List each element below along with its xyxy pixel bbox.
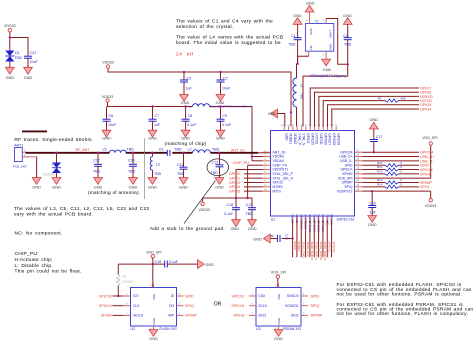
svg-text:SPICLK: SPICLK [99, 304, 113, 308]
pin top XTAL_N [301, 127, 303, 131]
pin 7 /HOLD [124, 314, 131, 316]
ground (U3) [153, 326, 155, 330]
capacitor C8 0.1uF [185, 107, 187, 120]
svg-text:XOUT: XOUT [329, 30, 333, 38]
wire VDDA3 stub [252, 156, 263, 158]
junction (L3 tap) [151, 152, 153, 154]
pin 20 SPIWP [355, 182, 363, 184]
pin bottom SDIO_CLK [305, 216, 307, 220]
svg-text:GPIO3: GPIO3 [306, 133, 310, 143]
svg-text:D2: D2 [51, 163, 55, 167]
pin 8 VDD stub (U3) [278, 284, 280, 288]
junction (C22 tap) [97, 152, 99, 154]
ground (U3) [278, 326, 280, 330]
junction (R8 to CS) [117, 295, 119, 297]
pin top GPIO25 [309, 127, 311, 131]
svg-text:C6: C6 [109, 114, 114, 118]
svg-text:GND: GND [129, 185, 138, 190]
ground (C4) [343, 18, 352, 25]
wire VDD33 rail2 [108, 102, 193, 106]
junction (XOUT) [347, 63, 349, 65]
ground (C2) [216, 95, 225, 102]
wire GPIO5 [244, 190, 263, 192]
svg-text:VDDA1: VDDA1 [289, 133, 293, 144]
ground (crystal top) [305, 5, 314, 12]
svg-text:VDDPST2: VDDPST2 [337, 189, 353, 193]
svg-text:TBD: TBD [344, 42, 352, 46]
pin 2 stub to ground [22, 156, 36, 158]
pin bottom SDIO_DATA1 [313, 216, 315, 220]
pin top U0TXD [314, 127, 316, 131]
svg-text:1uF: 1uF [154, 123, 161, 127]
svg-text:XTAL_N: XTAL_N [302, 133, 306, 146]
svg-text:C18: C18 [155, 260, 162, 264]
pin bottom SDIO_DATA3 [322, 216, 324, 220]
svg-text:VDD33: VDD33 [102, 60, 114, 64]
svg-text:10uF: 10uF [30, 60, 39, 64]
svg-text:not be used for other funtion: not be used for other funtions. FLASH is… [337, 311, 469, 317]
TVS diode D1 ESD [5, 51, 14, 57]
svg-text:TBD: TBD [127, 147, 135, 151]
pin 27 GPIO24 [355, 151, 363, 153]
svg-text:VDDA2: VDDA2 [293, 133, 297, 144]
junction (C17 tap) [373, 151, 375, 153]
svg-text:C4: C4 [343, 34, 348, 38]
svg-text:VDD33: VDD33 [102, 95, 114, 99]
svg-text:GND: GND [181, 135, 190, 140]
pin top GPIO29 [335, 127, 337, 131]
pin 5 VDDPST1 [263, 169, 271, 171]
pin 1 stub (ANT) [22, 151, 26, 153]
svg-text:0.1uF: 0.1uF [169, 260, 179, 264]
svg-text:TBD: TBD [212, 147, 220, 151]
wire SPIWP [363, 182, 386, 184]
svg-text:vary with the actual PCB board: vary with the actual PCB board. [14, 211, 93, 217]
wire SDIO_CLK down [305, 220, 307, 257]
pin 9 MTMS [263, 186, 271, 188]
ground (crystal bottom) [322, 59, 331, 66]
svg-text:U0TXD: U0TXD [315, 133, 319, 144]
svg-text:CHIP_PU: CHIP_PU [233, 161, 250, 165]
svg-text:GND: GND [343, 13, 352, 18]
svg-text:SDIO_CMD: SDIO_CMD [301, 242, 305, 259]
pin 10 MTDI [263, 190, 271, 192]
svg-text:RF_ANT: RF_ANT [76, 148, 91, 152]
svg-text:ESP32-C61: ESP32-C61 [337, 218, 355, 222]
svg-text:C3: C3 [187, 76, 192, 80]
svg-text:TBD: TBD [154, 172, 162, 176]
capacitor C7 1uF [152, 107, 154, 120]
svg-text:C9: C9 [223, 114, 228, 118]
svg-text:SO/SIO1: SO/SIO1 [285, 304, 299, 308]
capacitor C11 TBD [183, 153, 185, 167]
svg-text:TBD: TBD [177, 172, 185, 176]
ground (C22) [94, 178, 103, 185]
junction (XIN) [296, 63, 298, 65]
svg-text:DI: DI [171, 294, 174, 298]
wire VDD_SPI to C18/GND [118, 263, 164, 265]
power VDD33 (CHIP_PU) [201, 202, 204, 205]
pin 2 VDDA3 [263, 156, 271, 158]
svg-text:VDD: VDD [152, 294, 156, 300]
svg-text:C2: C2 [223, 76, 228, 80]
svg-text:SPIQ: SPIQ [420, 185, 429, 189]
pin 7 SIO3 [249, 314, 256, 316]
svg-text:ANT1: ANT1 [14, 143, 23, 147]
pin 18 VDDPST2 [355, 190, 363, 192]
svg-text:R8: R8 [123, 274, 127, 278]
capacitor C18 0.1uF [164, 261, 166, 268]
svg-text:PSRAM-3V3: PSRAM-3V3 [283, 327, 301, 331]
svg-text:TBD: TBD [174, 147, 182, 151]
capacitor C13 TBD [248, 207, 256, 209]
svg-text:C19: C19 [369, 201, 376, 205]
svg-text:GND: GND [215, 185, 224, 190]
pin bottom MTDO [296, 216, 298, 220]
svg-text:C22: C22 [93, 159, 100, 163]
note: RF traces [22, 130, 47, 132]
svg-text:GND: GND [148, 185, 157, 190]
ground (D1) [5, 67, 14, 74]
pin 21 VDD_SPI [355, 177, 363, 179]
svg-text:SIO3: SIO3 [258, 314, 266, 318]
pin top U0RXD [318, 127, 320, 131]
svg-text:GND: GND [148, 135, 157, 140]
junction (C19 tap) [371, 190, 373, 192]
svg-text:L4: L4 [299, 84, 303, 88]
ground (L3) [148, 178, 157, 185]
inductor L3 TBD [152, 153, 154, 157]
svg-text:not be used for other funtions: not be used for other funtions. PSRAM is… [337, 291, 462, 297]
junction (C23 tap) [132, 152, 134, 154]
junction (C9 tap) [219, 105, 221, 107]
svg-text:SPICS1: SPICS1 [231, 294, 244, 298]
wire SDIO_DATA1 down [313, 220, 315, 257]
svg-text:TBD: TBD [211, 171, 219, 175]
svg-text:SPID: SPID [185, 294, 194, 298]
resistor R13 0 [385, 181, 399, 184]
svg-text:SPIWP: SPIWP [185, 314, 197, 318]
svg-text:CS#: CS# [258, 294, 265, 298]
inductor L4 TBD [296, 64, 298, 78]
resistor R12 0 [385, 172, 399, 175]
svg-text:C23: C23 [128, 159, 135, 163]
svg-text:C14: C14 [285, 234, 289, 240]
svg-text:CHIP_PU:: CHIP_PU: [15, 251, 39, 257]
svg-text:SPIQ: SPIQ [311, 304, 320, 308]
pin 1 /CS [124, 295, 131, 297]
wire SDIO_DATA0 down [309, 220, 311, 257]
wire GPIO4 [244, 186, 263, 188]
pin 2 DO [177, 305, 184, 307]
divider line [144, 139, 146, 200]
svg-text:C21: C21 [30, 51, 37, 55]
svg-text:L5: L5 [103, 147, 107, 151]
svg-text:GND: GND [149, 336, 158, 341]
pin 7 XTAL_32K_N [263, 177, 271, 179]
svg-text:MTCK: MTCK [293, 242, 297, 252]
pin 4 CHIP_PU [263, 164, 271, 166]
pin top GPIO3 [305, 127, 307, 131]
wire SPID [363, 164, 386, 166]
pin top XTAL_P [296, 127, 298, 131]
pin 3 SIO2 [301, 314, 308, 316]
svg-text:24 nH .: 24 nH . [176, 51, 200, 57]
ground (chip top GND pin 41) [271, 109, 278, 118]
svg-text:MTDI: MTDI [273, 189, 281, 193]
svg-text:GND: GND [5, 75, 14, 80]
pin 3 VDDA4 [263, 160, 271, 162]
svg-text:VDD33: VDD33 [425, 204, 437, 208]
svg-text:SDIO_DATA0: SDIO_DATA0 [310, 242, 314, 261]
svg-text:0.1uF: 0.1uF [224, 212, 234, 216]
wire CHIP_PU [248, 164, 263, 166]
wire VDD33 to D1/C21 [9, 32, 11, 51]
pin 24 SPID [355, 164, 363, 166]
svg-text:CLK: CLK [133, 304, 140, 308]
svg-text:GND: GND [268, 111, 277, 116]
ground (C23) [129, 178, 138, 185]
ground (ANT1) [32, 178, 41, 185]
wire XOUT net [326, 19, 348, 65]
wire XIN net [298, 56, 309, 64]
svg-text:ANT_2G: ANT_2G [231, 148, 245, 152]
svg-text:R2: R2 [378, 96, 382, 100]
svg-text:U0RXD: U0RXD [319, 133, 323, 145]
pin 6 SCLK [249, 305, 256, 307]
svg-text:0.1uF: 0.1uF [187, 123, 197, 127]
wire GPIO0 [244, 173, 263, 175]
junction (VDDA3) [251, 155, 253, 157]
ground (C11) [179, 178, 188, 185]
svg-text:SPIWP: SPIWP [311, 314, 323, 318]
pin 19 SPIQ [355, 186, 363, 188]
wire MTDO down [296, 220, 298, 257]
pin 1 XIN stub [308, 51, 310, 56]
svg-text:GPIO29: GPIO29 [336, 133, 340, 145]
capacitor C4 TBD [347, 24, 349, 37]
svg-text:ESD: ESD [15, 56, 23, 60]
svg-text:SDIO_CLK: SDIO_CLK [306, 242, 310, 258]
svg-text:OR: OR [214, 301, 222, 307]
wire XOUT to XTAL_N [303, 64, 348, 126]
wire USB_D- [363, 160, 420, 162]
svg-text:SPIHD: SPIHD [233, 314, 245, 318]
wire SPIQ [363, 186, 386, 188]
svg-text:L: Disable chip.: L: Disable chip. [15, 263, 53, 269]
svg-text:C13: C13 [246, 203, 253, 207]
wire U0RXD elbow [319, 96, 419, 126]
junction (C7 tap) [151, 105, 153, 107]
wire D1 to ground [9, 62, 11, 68]
ground (C3) [180, 95, 189, 102]
chip U3 PSRAM-3V3 body [256, 288, 301, 327]
capacitor C6 10uF [106, 107, 108, 120]
pin top GND [283, 127, 285, 131]
pin 3 XOUT stub [325, 19, 327, 24]
svg-text:SDIO_DATA1: SDIO_DATA1 [314, 242, 318, 261]
resistor R2 499 [385, 99, 399, 102]
svg-text:C5: C5 [159, 147, 164, 151]
svg-text:Add a stub to the ground pad.: Add a stub to the ground pad. [150, 226, 225, 232]
capacitor C1 TBD [297, 24, 299, 37]
svg-text:GND: GND [369, 117, 378, 122]
pin bottom SPICS0 [331, 216, 333, 220]
svg-text:C1: C1 [291, 34, 296, 38]
svg-text:/WP: /WP [168, 314, 175, 318]
capacitor C9 0.1uF [220, 107, 222, 120]
svg-text:GND: GND [284, 133, 288, 141]
svg-text:GPIO4: GPIO4 [420, 107, 431, 111]
pin 22 SPIHD [355, 173, 363, 175]
svg-text:SPID: SPID [311, 294, 320, 298]
crystal Y1 40MHz [305, 24, 333, 52]
svg-text:GPIO27: GPIO27 [328, 133, 332, 145]
capacitor C17 [373, 129, 375, 140]
resistor R11 0 [385, 168, 399, 171]
wire GPIO6 elbow [315, 92, 420, 126]
ground (C9) [216, 130, 225, 137]
power VDD33 (ESD section) [8, 29, 11, 32]
svg-text:L3: L3 [156, 162, 160, 166]
svg-text:DO: DO [169, 304, 174, 308]
power VDD33 (analog rail) [106, 65, 109, 68]
svg-text:GND: GND [216, 135, 225, 140]
pin 8 GPIO2 [263, 182, 271, 184]
wire VDD_SPI pin 21 [363, 177, 431, 179]
inductor L1 2.0nH 500mA [193, 104, 210, 107]
svg-text:40MHz(&#177;10ppm): 40MHz(&#177;10ppm) [310, 74, 346, 78]
svg-text:GND: GND [32, 185, 41, 190]
wire SDIO_DATA2 down [318, 220, 320, 257]
svg-text:10nF: 10nF [222, 87, 231, 91]
svg-text:SCLK: SCLK [258, 304, 268, 308]
wire U0TXD elbow [323, 101, 385, 127]
junction (C12 tap) [218, 152, 220, 154]
svg-text:GND: GND [52, 185, 61, 190]
svg-text:/HOLD: /HOLD [133, 314, 144, 318]
svg-text:SI/SIO0: SI/SIO0 [287, 294, 299, 298]
antenna ANT1 PCB_ANT [15, 148, 23, 162]
svg-text:GND: GND [368, 222, 377, 227]
svg-text:GPIO25: GPIO25 [310, 133, 314, 145]
wire VDDPST2 pin 18 [363, 190, 431, 192]
svg-text:GND: GND [102, 135, 111, 140]
ground (C17) [369, 122, 378, 129]
junction (C11 tap) [182, 152, 184, 154]
svg-text:GND: GND [230, 226, 239, 231]
power VDD33 (VDDA3/4 rail) [106, 99, 109, 102]
svg-text:2.0nH(&#177;5%) 1nH, 500 mA: 2.0nH(&#177;5%) 1nH, 500 mA [210, 104, 252, 108]
svg-text:L2: L2 [188, 147, 192, 151]
wire MTCK down [292, 220, 294, 257]
pin 2 GND stub [325, 51, 327, 59]
pin 4 GND stub [309, 12, 311, 24]
pin top GPIO27 [327, 127, 329, 131]
svg-text:MTDO: MTDO [297, 242, 301, 252]
pin 1 CS# [249, 295, 256, 297]
wire USB_D+ [363, 156, 420, 158]
svg-text:U3: U3 [131, 327, 136, 331]
wire SPICS0 down [331, 220, 333, 257]
wire GPIO2 [244, 182, 263, 184]
wire RF_ANT trace [26, 152, 110, 154]
wire SDIO_CMD down [300, 220, 302, 257]
wire GPIO5 elbow [328, 105, 420, 127]
wire D2 to ground [56, 173, 58, 178]
svg-text:C11: C11 [177, 163, 183, 167]
svg-text:TBD: TBD [288, 42, 296, 46]
svg-text:GND: GND [277, 318, 281, 324]
svg-text:GND: GND [253, 237, 262, 242]
pin 3 /WP [177, 314, 184, 316]
pin 23 SPICLK [355, 169, 363, 171]
ground (C1) [293, 18, 302, 25]
junction (VDDA branch) [290, 111, 292, 113]
svg-text:SDIO_DATA2: SDIO_DATA2 [319, 242, 323, 261]
wire VDDPST1 to node [236, 169, 263, 171]
svg-text:board. The initial value is su: board. The initial value is suggested to… [176, 40, 281, 46]
pin top VDDA1 [288, 127, 290, 131]
svg-text:SPIHD: SPIHD [101, 314, 113, 318]
svg-text:GND: GND [329, 44, 333, 50]
svg-text:U1: U1 [271, 218, 275, 222]
ground (C7) [148, 130, 157, 137]
svg-text:H:Activate chip;: H:Activate chip; [15, 257, 53, 263]
svg-text:The value of L4 varies with th: The value of L4 varies with the actual P… [176, 35, 283, 41]
pin 5 SI/SIO0 [301, 295, 308, 297]
wire SPICS1 down [326, 220, 328, 257]
pin 6 CLK [124, 305, 131, 307]
junction (D2 tap) [55, 152, 57, 154]
capacitor C14 TBD [276, 235, 278, 242]
svg-text:GND: GND [152, 318, 156, 324]
svg-text:R14: R14 [377, 182, 383, 186]
svg-text:GPIO26: GPIO26 [323, 133, 327, 145]
svg-text:GPIO28: GPIO28 [332, 133, 336, 145]
ground (C16) [232, 220, 241, 227]
svg-text:SDIO_DATA3: SDIO_DATA3 [323, 242, 327, 261]
svg-text:PCB_ANT: PCB_ANT [13, 164, 27, 168]
svg-text:SPICLK: SPICLK [231, 304, 245, 308]
svg-text:10uF: 10uF [108, 123, 117, 127]
svg-text:/CS: /CS [133, 294, 139, 298]
pin bottom SDIO_DATA0 [309, 216, 311, 220]
svg-text:GND: GND [24, 75, 33, 80]
pin 2 SO/SIO1 [301, 305, 308, 307]
svg-text:D1: D1 [15, 51, 20, 55]
junction [9, 36, 11, 38]
svg-text:GND: GND [94, 185, 103, 190]
svg-text:GPIO5: GPIO5 [229, 189, 240, 193]
junction (C14 tap) [291, 237, 293, 239]
wire SPICLK [363, 169, 386, 171]
pin top VDDA2 [292, 127, 294, 131]
ground (C18) [197, 260, 204, 269]
junction (C2 tap) [219, 71, 221, 73]
ground (C14) [263, 234, 270, 243]
svg-text:VDD_SPI: VDD_SPI [146, 251, 161, 255]
svg-text:VDD33: VDD33 [4, 24, 16, 28]
svg-text:RF traces: Single-ended 50ohm: RF traces: Single-ended 50ohm. [14, 137, 93, 143]
wire GPIO7 elbow [310, 88, 419, 127]
ground (C6) [102, 130, 111, 137]
svg-text:C17: C17 [376, 135, 383, 139]
svg-text:FLASH-3V3: FLASH-3V3 [159, 327, 176, 331]
svg-text:TBD: TBD [246, 212, 254, 216]
ground (C8) [181, 130, 190, 137]
pin 26 USB_D+ [355, 156, 363, 158]
